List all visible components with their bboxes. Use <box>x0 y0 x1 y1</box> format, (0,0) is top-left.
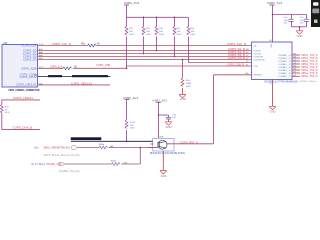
svg-text:100R: 100R <box>186 83 192 85</box>
svg-text:DQ2/BGTM: DQ2/BGTM <box>254 59 265 61</box>
svg-text:GND: GND <box>270 110 276 114</box>
svg-text:C2: C2 <box>294 60 296 62</box>
svg-text:D3: D3 <box>294 69 296 71</box>
svg-text:DQ3/GTM: DQ3/GTM <box>254 56 264 58</box>
svg-text:COPS_D3: COPS_D3 <box>23 58 37 62</box>
svg-text:COPS_CSB_R: COPS_CSB_R <box>227 64 244 67</box>
svg-text:D2: D2 <box>294 66 296 68</box>
svg-text:USB2_CAMERA_CONNECTOR: USB2_CAMERA_CONNECTOR <box>8 89 39 92</box>
svg-text:WTF Base Reset (hyst): WTF Base Reset (hyst) <box>44 154 80 157</box>
svg-text:16V: 16V <box>284 23 288 25</box>
svg-text:0402: 0402 <box>177 34 183 36</box>
svg-text:USB2_3V3: USB2_3V3 <box>267 2 283 5</box>
svg-text:DPA1_1: DPA1_1 <box>279 57 292 60</box>
svg-text:COPS_CLK_R: COPS_CLK_R <box>52 43 71 46</box>
svg-text:COPS_CLK_R: COPS_CLK_R <box>227 43 246 46</box>
svg-text:0402: 0402 <box>130 128 136 130</box>
svg-text:DQ0/D0: DQ0/D0 <box>254 50 262 52</box>
svg-text:GDPAL1-PBA x4: GDPAL1-PBA x4 <box>299 80 318 83</box>
svg-text:COPS_RST_A: COPS_RST_A <box>180 141 198 144</box>
svg-text:0402: 0402 <box>129 34 135 36</box>
svg-text:DPA1_2: DPA1_2 <box>279 60 292 63</box>
svg-text:0402: 0402 <box>146 34 152 36</box>
svg-text:VDC: VDC <box>270 44 272 49</box>
svg-text:GND: GND <box>297 34 303 38</box>
svg-text:B2: B2 <box>294 54 296 56</box>
svg-text:BSS4C1/2GSDB-P8A: BSS4C1/2GSDB-P8A <box>150 152 186 155</box>
svg-text:COPS_D3_R: COPS_D3_R <box>228 57 245 60</box>
svg-text:COPS_SQB: COPS_SQB <box>21 66 37 70</box>
svg-text:E3: E3 <box>294 75 296 77</box>
svg-text:RESETB: RESETB <box>254 75 263 77</box>
svg-text:GND: GND <box>166 125 172 129</box>
svg-text:C1B: C1B <box>254 66 259 68</box>
svg-text:DQ1/N1: DQ1/N1 <box>254 53 262 55</box>
svg-text:DPA1_0: DPA1_0 <box>279 54 292 57</box>
svg-text:B3: B3 <box>294 57 296 59</box>
svg-text:GND: GND <box>161 174 167 178</box>
svg-text:GND: GND <box>180 97 186 101</box>
svg-text:16V: 16V <box>300 23 304 25</box>
svg-text:COPS_CLK: COPS_CLK <box>50 66 63 69</box>
svg-text:DPA1_7: DPA1_7 <box>279 75 292 78</box>
svg-text:10K: 10K <box>177 31 181 33</box>
svg-text:10K: 10K <box>130 125 134 127</box>
svg-text:0402: 0402 <box>191 34 197 36</box>
svg-text:DPA1_6: DPA1_6 <box>279 72 292 75</box>
svg-text:COPS_CLK: COPS_CLK <box>22 44 37 48</box>
svg-text:0402: 0402 <box>5 112 11 114</box>
svg-text:COPS_UBCLA1: COPS_UBCLA1 <box>16 83 37 87</box>
svg-text:(h) (LT BLE): (h) (LT BLE) <box>31 163 45 166</box>
svg-text:BKL/_RESETN(3V): BKL/_RESETN(3V) <box>44 146 70 149</box>
svg-text:10K: 10K <box>159 31 163 33</box>
svg-text:0402: 0402 <box>159 34 165 36</box>
svg-text:10K: 10K <box>146 31 150 33</box>
svg-text:DPA1_TX3_N: DPA1_TX3_N <box>302 75 318 78</box>
svg-text:DPA1_5: DPA1_5 <box>279 69 292 72</box>
svg-text:COPS_DUA_B: COPS_DUA_B <box>13 126 33 129</box>
svg-text:0402: 0402 <box>186 86 192 88</box>
svg-text:DPA1_3: DPA1_3 <box>279 63 292 66</box>
svg-text:100n: 100n <box>300 20 306 22</box>
svg-text:COPS_CSB: COPS_CSB <box>96 64 110 67</box>
svg-text:E2: E2 <box>294 72 296 74</box>
svg-text:COPS_UBCLA1: COPS_UBCLA1 <box>71 82 93 85</box>
svg-text:1uF: 1uF <box>172 117 176 119</box>
svg-text:10K: 10K <box>191 31 195 33</box>
svg-text:C3: C3 <box>294 63 296 65</box>
svg-text:DPA1_4: DPA1_4 <box>279 66 292 69</box>
svg-text:(h)Ba (hyst): (h)Ba (hyst) <box>59 170 80 173</box>
svg-text:(3b): (3b) <box>34 146 39 149</box>
svg-text:100n: 100n <box>284 20 290 22</box>
svg-text:10K: 10K <box>129 31 133 33</box>
